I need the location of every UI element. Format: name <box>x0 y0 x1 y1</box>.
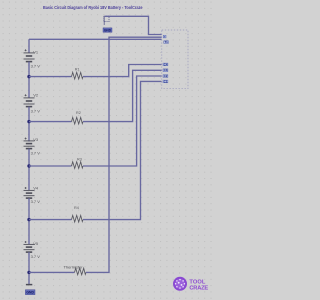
connector J1 (battery terminal block) <box>162 30 188 89</box>
svg-text:+: + <box>164 35 166 39</box>
svg-text:GND: GND <box>104 29 112 33</box>
node tap1 junction <box>27 75 30 78</box>
wire left rail segment 2 <box>28 62 30 98</box>
svg-text:V5: V5 <box>33 241 39 246</box>
svg-text:C1: C1 <box>164 79 168 83</box>
resistor R4 <box>72 215 84 222</box>
pin C3 <box>163 68 168 72</box>
svg-text:V3: V3 <box>33 137 39 142</box>
battery V1 <box>24 49 35 61</box>
pin C2 <box>163 74 168 78</box>
node tap3 junction <box>27 164 30 167</box>
svg-text:R2: R2 <box>76 111 81 115</box>
node tap4 junction <box>27 218 30 221</box>
svg-text:GND: GND <box>26 291 34 295</box>
wire left rail segment 1 <box>28 39 30 53</box>
pin + <box>163 35 166 39</box>
wire left rail segment 6 <box>28 252 30 284</box>
wire tap3 to pin C2 <box>83 76 162 166</box>
svg-text:3.7 V: 3.7 V <box>31 199 41 204</box>
battery V2 <box>24 94 35 106</box>
pin C1 <box>163 79 168 83</box>
battery V3 <box>24 138 35 149</box>
wire left rail segment 5 <box>28 198 30 244</box>
wire tap3 left <box>29 165 72 167</box>
svg-text:Basic Circuit Diagram of Ryobi: Basic Circuit Diagram of Ryobi 18V Batte… <box>43 5 143 10</box>
wire GND flag to pin minus <box>105 16 162 34</box>
wire tap2 left <box>29 121 72 123</box>
wire tap4 left <box>29 219 72 221</box>
svg-text:R1: R1 <box>75 67 80 71</box>
svg-text:T1: T1 <box>164 40 168 44</box>
node bottom junction <box>27 271 30 274</box>
thermistor RT1 <box>75 268 87 275</box>
ground (bottom) <box>26 284 32 286</box>
svg-text:3.7 V: 3.7 V <box>31 151 41 156</box>
net label GND (top) <box>103 28 112 33</box>
ToolCraze logo <box>173 277 208 292</box>
net flag GND (top) <box>104 16 109 25</box>
net label GND (bottom) <box>25 290 35 295</box>
svg-text:CRAZE: CRAZE <box>189 286 208 292</box>
node tap2 junction <box>27 120 30 123</box>
resistor R3 <box>72 162 84 169</box>
svg-text:C4: C4 <box>164 62 168 66</box>
pin T1 <box>164 40 169 44</box>
wire top rail B+ <box>29 38 162 40</box>
svg-text:R4: R4 <box>74 206 79 210</box>
wire left rail segment 3 <box>28 107 30 142</box>
battery V5 <box>24 241 35 252</box>
svg-text:3.7 V: 3.7 V <box>31 108 41 113</box>
wire tap1 left <box>29 76 72 78</box>
svg-text:V2: V2 <box>33 93 39 98</box>
svg-text:R3: R3 <box>77 157 82 161</box>
resistor R1 <box>72 72 84 79</box>
resistor R2 <box>72 117 84 124</box>
wire tap1 to pin C4 <box>83 65 162 77</box>
svg-text:C3: C3 <box>164 68 168 72</box>
wire tap2 to pin C3 <box>83 70 162 121</box>
svg-text:3.7 V: 3.7 V <box>31 254 41 259</box>
svg-text:V1: V1 <box>33 50 39 55</box>
svg-text:C2: C2 <box>164 74 168 78</box>
svg-text:3.7 V: 3.7 V <box>31 63 41 68</box>
battery V4 <box>24 187 35 198</box>
svg-text:Thermistor: Thermistor <box>64 265 84 270</box>
wire thermistor to pin T1 <box>86 37 162 272</box>
pin C4 <box>163 62 168 66</box>
wire tap4 to pin C1 <box>83 81 162 219</box>
wire thermistor left <box>29 271 75 273</box>
svg-text:V4: V4 <box>33 185 39 190</box>
wire left rail segment 4 <box>28 149 30 191</box>
